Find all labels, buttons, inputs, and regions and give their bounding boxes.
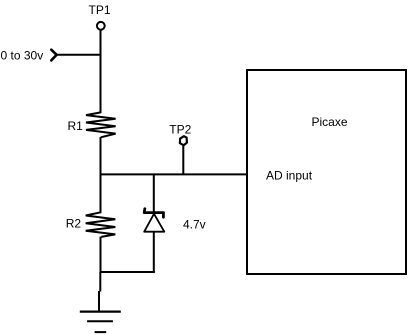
ground xyxy=(80,312,121,333)
Picaxe box U1 xyxy=(247,70,406,274)
wire: zener to bottom junction xyxy=(153,232,155,273)
wire: TP1 to R1 xyxy=(100,30,102,113)
wire: bottom junction horizontal xyxy=(100,271,155,273)
node bus wire to Picaxe AD input xyxy=(100,173,248,175)
wire: zener branch from node xyxy=(153,174,155,213)
test point TP2 xyxy=(180,136,187,145)
svg-text:AD input: AD input xyxy=(266,168,313,182)
wire: junction to ground upper xyxy=(99,272,101,292)
wire: R2 to bottom junction xyxy=(100,237,102,273)
svg-text:R2: R2 xyxy=(66,216,82,230)
zener diode D1 anode triangle xyxy=(144,214,164,232)
zener diode D1 cathode bar xyxy=(144,209,163,217)
svg-text:0 to 30v: 0 to 30v xyxy=(1,49,44,63)
svg-text:TP2: TP2 xyxy=(169,122,191,136)
wire: R1 to node xyxy=(100,137,102,175)
svg-text:R1: R1 xyxy=(68,119,84,133)
resistor R1 xyxy=(86,112,116,137)
svg-text:4.7v: 4.7v xyxy=(183,218,206,232)
wire: TP2 stub xyxy=(182,145,184,175)
test point TP1 xyxy=(97,22,105,30)
wire: input to main vertical xyxy=(57,54,102,56)
wire: junction to ground lower xyxy=(98,291,100,312)
svg-text:TP1: TP1 xyxy=(89,3,111,17)
svg-text:Picaxe: Picaxe xyxy=(312,115,348,129)
resistor R2 xyxy=(86,212,116,237)
input arrow chevron xyxy=(51,50,56,61)
wire: node to R2 xyxy=(100,174,102,212)
